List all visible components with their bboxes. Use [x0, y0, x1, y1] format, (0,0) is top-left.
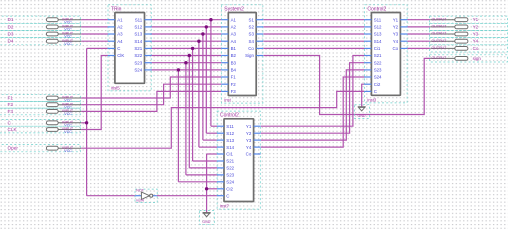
- svg-text:S22: S22: [374, 60, 382, 65]
- svg-text:Ci1: Ci1: [226, 152, 233, 157]
- svg-text:Control2: Control2: [367, 6, 386, 12]
- svg-text:S11: S11: [374, 17, 382, 22]
- svg-text:ClK: ClK: [117, 53, 124, 58]
- svg-text:Y2: Y2: [393, 25, 399, 30]
- svg-text:S1: S1: [249, 17, 255, 22]
- svg-text:B4: B4: [231, 68, 237, 73]
- svg-text:OUTPUT: OUTPUT: [432, 32, 448, 36]
- svg-text:A2: A2: [117, 25, 123, 30]
- svg-text:Co: Co: [246, 152, 252, 157]
- svg-text:inst5: inst5: [111, 86, 121, 91]
- svg-text:VCC: VCC: [64, 149, 72, 153]
- svg-text:A2: A2: [231, 25, 237, 30]
- svg-text:CLK: CLK: [8, 127, 18, 132]
- svg-text:D2: D2: [8, 24, 14, 29]
- svg-text:S11: S11: [226, 124, 234, 129]
- svg-text:S11: S11: [135, 17, 143, 22]
- svg-text:C: C: [374, 89, 377, 94]
- svg-text:S14: S14: [374, 39, 382, 44]
- svg-text:S12: S12: [134, 25, 142, 30]
- svg-text:OUTPUT: OUTPUT: [432, 56, 448, 60]
- svg-text:S21: S21: [134, 46, 142, 51]
- svg-text:inst4: inst4: [136, 199, 144, 203]
- svg-text:Y3: Y3: [246, 138, 252, 143]
- svg-text:S2: S2: [249, 25, 255, 30]
- svg-text:F1: F1: [8, 96, 14, 101]
- svg-text:C: C: [226, 193, 229, 198]
- svg-text:S24: S24: [374, 75, 382, 80]
- svg-text:Y1: Y1: [246, 124, 252, 129]
- svg-text:F2: F2: [8, 102, 14, 107]
- svg-text:Sign: Sign: [245, 53, 254, 58]
- svg-text:GND: GND: [202, 220, 210, 224]
- svg-text:OUTPUT: OUTPUT: [432, 17, 448, 21]
- svg-text:Oper: Oper: [8, 146, 19, 151]
- svg-text:OUTPUT: OUTPUT: [432, 25, 448, 29]
- svg-text:F2: F2: [231, 82, 237, 87]
- svg-text:S21: S21: [374, 53, 382, 58]
- svg-text:S12: S12: [374, 25, 382, 30]
- svg-text:Y3: Y3: [393, 32, 399, 37]
- svg-text:S3: S3: [249, 32, 255, 37]
- svg-text:C: C: [117, 46, 120, 51]
- svg-text:S24: S24: [134, 68, 142, 73]
- svg-text:VCC: VCC: [64, 42, 72, 46]
- svg-text:A4: A4: [231, 39, 237, 44]
- svg-text:Y1: Y1: [473, 17, 479, 22]
- svg-text:Y2: Y2: [473, 24, 479, 29]
- svg-text:Y2: Y2: [246, 131, 252, 136]
- svg-text:Y4: Y4: [473, 39, 479, 44]
- svg-text:Co: Co: [248, 46, 254, 51]
- svg-text:S14: S14: [134, 39, 142, 44]
- svg-text:S23: S23: [226, 173, 234, 178]
- svg-text:Y3: Y3: [473, 31, 479, 36]
- svg-text:OUTPUT: OUTPUT: [432, 39, 448, 43]
- svg-text:A1: A1: [231, 17, 237, 22]
- svg-text:S4: S4: [249, 39, 255, 44]
- svg-text:B2: B2: [231, 53, 237, 58]
- svg-text:Y1: Y1: [393, 17, 399, 22]
- svg-text:GND: GND: [358, 114, 366, 118]
- svg-text:Y4: Y4: [393, 39, 399, 44]
- svg-text:inst3: inst3: [367, 98, 377, 103]
- svg-text:Y4: Y4: [246, 145, 252, 150]
- svg-text:S23: S23: [134, 60, 142, 65]
- svg-text:A1: A1: [117, 17, 123, 22]
- svg-text:B3: B3: [231, 60, 237, 65]
- svg-text:Ci1: Ci1: [374, 46, 381, 51]
- svg-text:Co: Co: [473, 46, 479, 51]
- svg-text:S23: S23: [374, 68, 382, 73]
- svg-text:OUTPUT: OUTPUT: [432, 46, 448, 50]
- svg-text:F1: F1: [231, 75, 237, 80]
- svg-text:inst: inst: [224, 98, 231, 103]
- svg-text:A3: A3: [231, 32, 237, 37]
- svg-text:D1: D1: [8, 17, 14, 22]
- svg-text:S13: S13: [374, 32, 382, 37]
- svg-text:D3: D3: [8, 32, 14, 37]
- svg-text:S12: S12: [226, 131, 234, 136]
- svg-text:S22: S22: [134, 53, 142, 58]
- svg-text:S24: S24: [226, 180, 234, 185]
- svg-text:F3: F3: [231, 89, 237, 94]
- svg-text:NOT: NOT: [136, 189, 144, 193]
- svg-text:F3: F3: [8, 109, 14, 114]
- svg-text:System2: System2: [224, 6, 244, 12]
- svg-text:Ci2: Ci2: [374, 82, 381, 87]
- svg-text:S13: S13: [134, 32, 142, 37]
- svg-text:TRin: TRin: [111, 6, 122, 12]
- svg-text:S21: S21: [226, 159, 234, 164]
- svg-text:VCC: VCC: [64, 130, 72, 134]
- svg-text:A3: A3: [117, 32, 123, 37]
- svg-text:Control2: Control2: [220, 113, 239, 119]
- svg-text:Ci2: Ci2: [226, 187, 233, 192]
- svg-text:B1: B1: [231, 46, 237, 51]
- svg-text:A4: A4: [117, 39, 123, 44]
- svg-text:S13: S13: [226, 138, 234, 143]
- svg-text:D4: D4: [8, 39, 14, 44]
- svg-text:sign: sign: [473, 56, 482, 61]
- svg-text:inst7: inst7: [220, 204, 230, 209]
- svg-text:S22: S22: [226, 166, 234, 171]
- svg-text:Co: Co: [392, 46, 398, 51]
- svg-text:S14: S14: [226, 145, 234, 150]
- svg-text:VCC: VCC: [64, 112, 72, 116]
